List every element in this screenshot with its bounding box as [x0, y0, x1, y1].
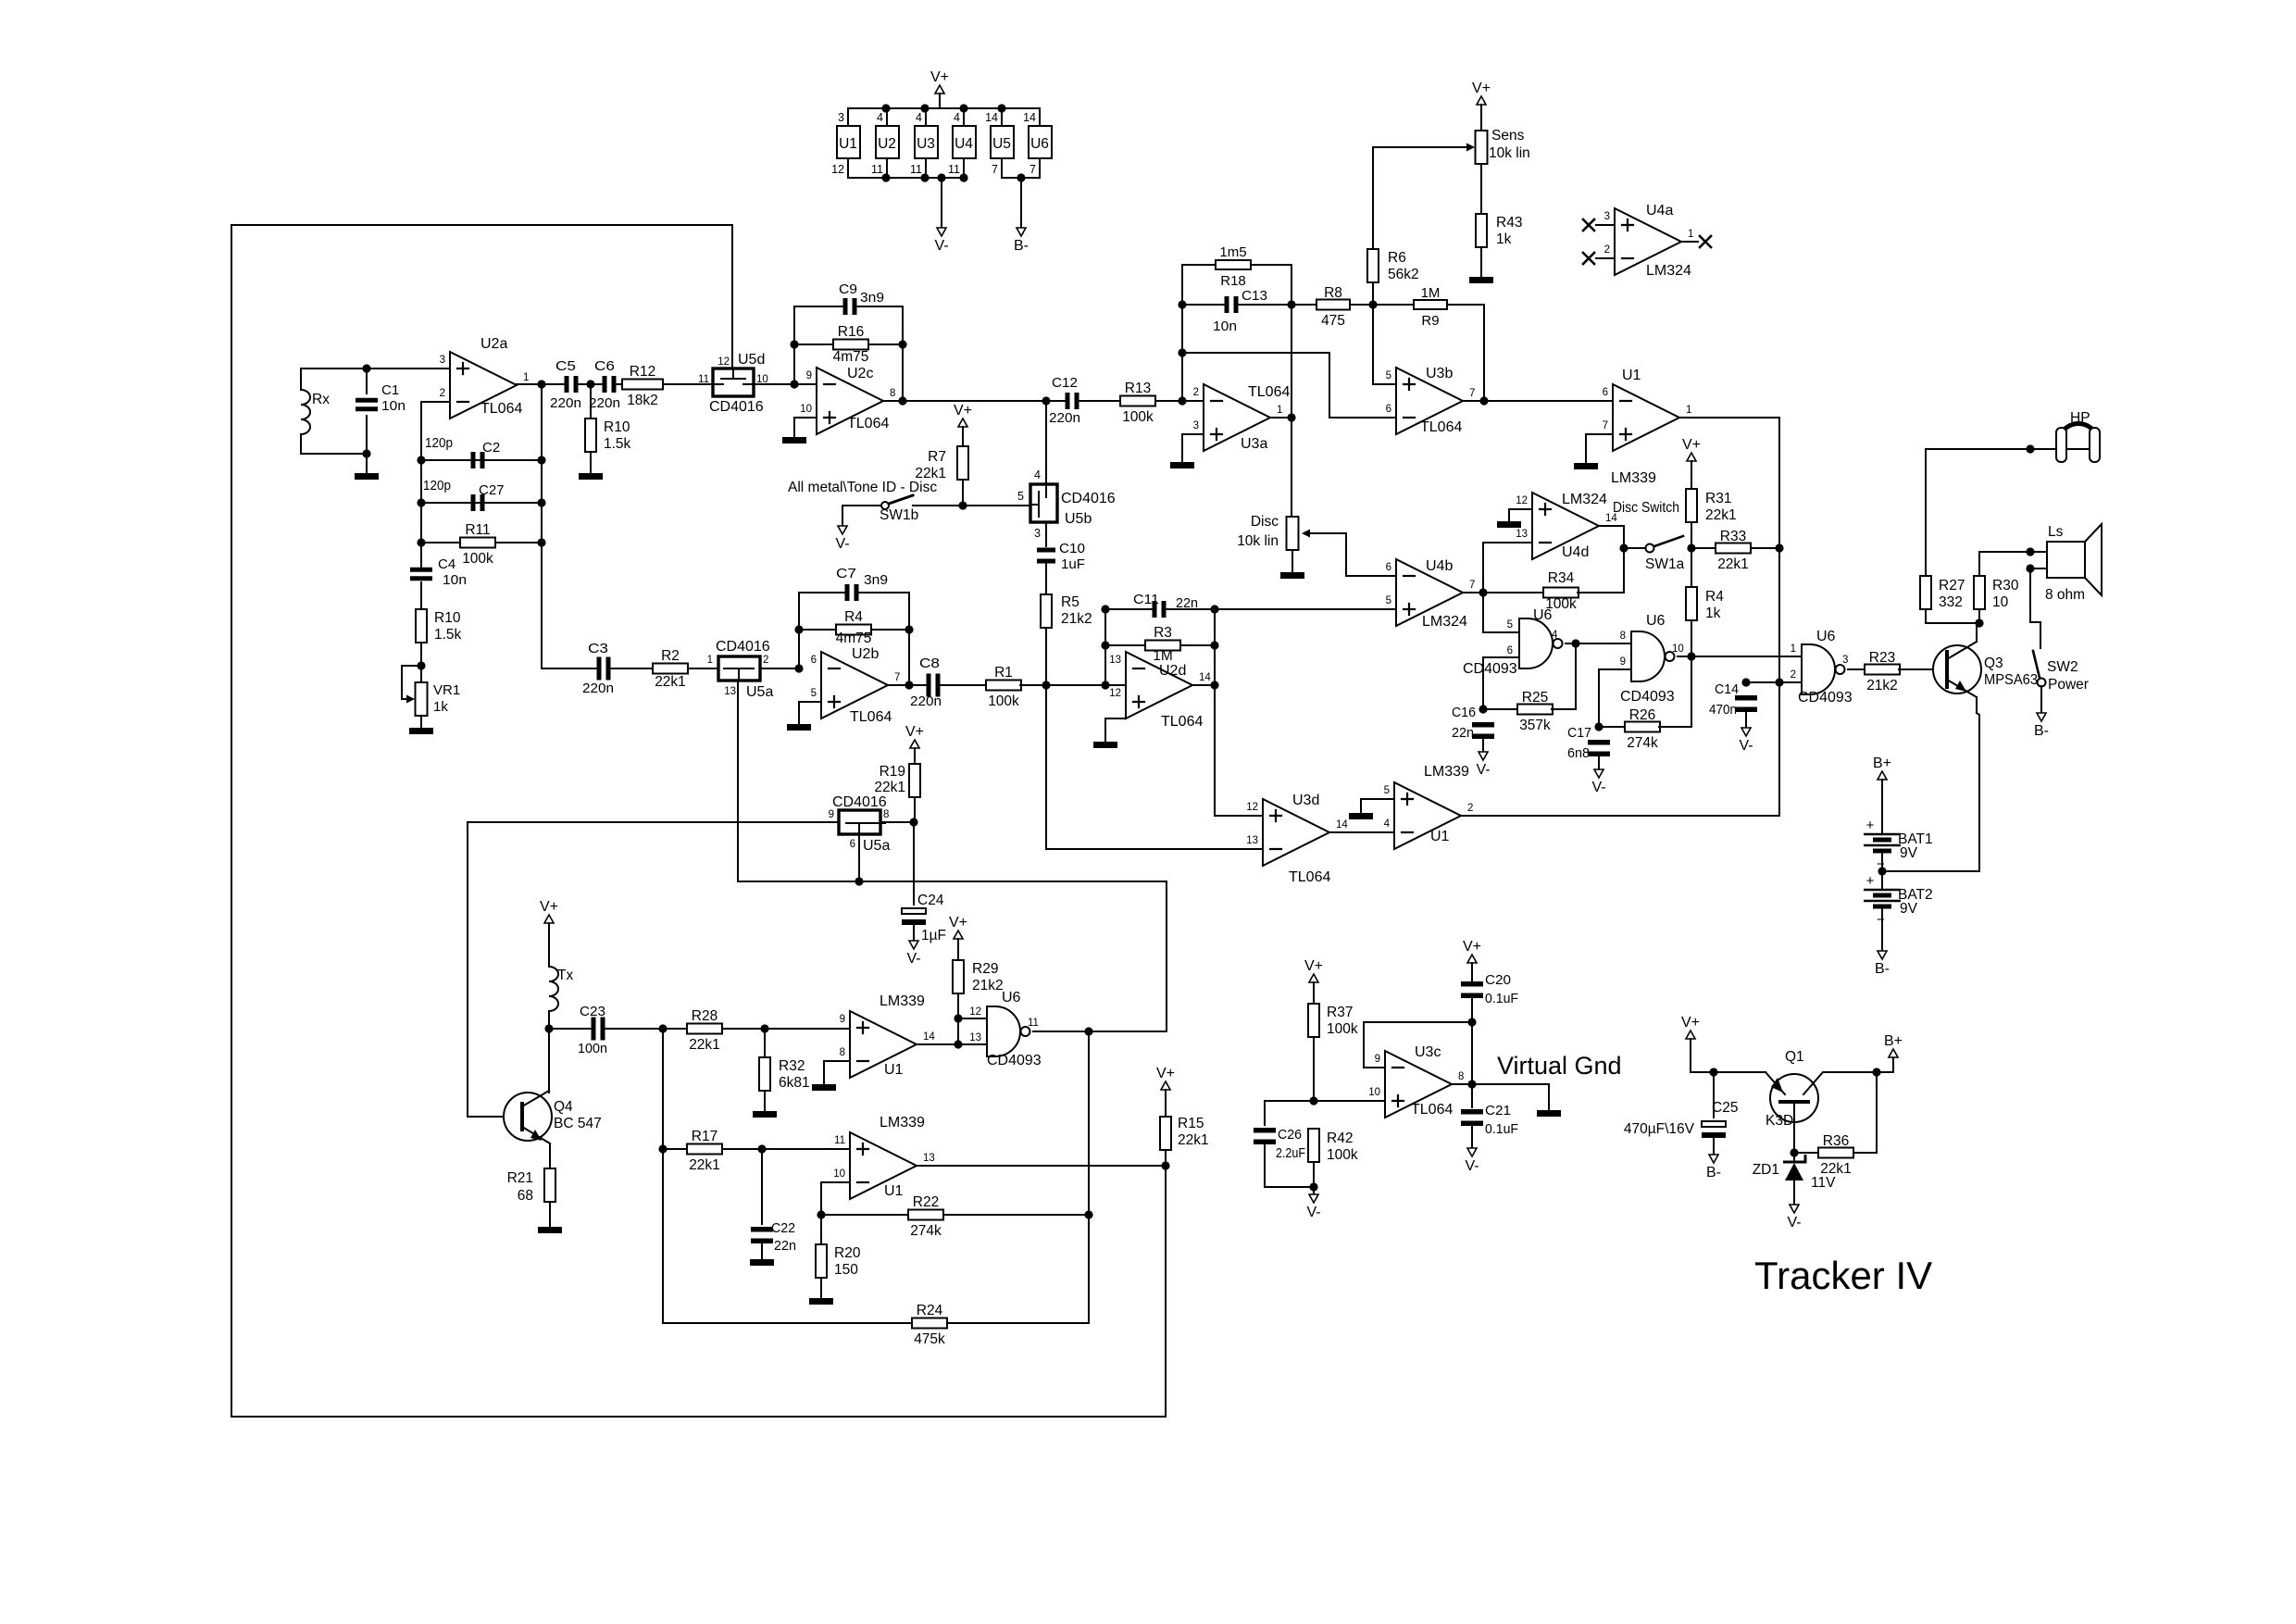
wire U2a out vertical to C3 — [541, 384, 543, 668]
svg-text:R30: R30 — [1992, 578, 2019, 593]
wire C9 right to output — [855, 306, 903, 401]
battery BAT1 — [1864, 818, 1933, 872]
wire to C9 — [794, 306, 844, 307]
resistor R28 — [687, 1008, 722, 1053]
node Rx bottom — [362, 449, 370, 457]
wire U2d pin12 to ground — [1105, 718, 1126, 741]
svg-text:V+: V+ — [1472, 81, 1491, 96]
wire R33 to bus — [1751, 547, 1779, 549]
svg-text:6: 6 — [1507, 645, 1513, 656]
junction U5b pin4 tap — [1042, 396, 1050, 405]
NAND gate U6a CD4093 — [1519, 618, 1563, 668]
svg-text:V+: V+ — [930, 69, 949, 85]
wire BAT1 to BAT2 — [1881, 853, 1883, 888]
svg-text:274k: 274k — [910, 1223, 942, 1239]
svg-text:V-: V- — [906, 951, 920, 967]
svg-text:C27: C27 — [479, 482, 505, 498]
svg-text:R22: R22 — [913, 1194, 939, 1210]
svg-text:9: 9 — [840, 1014, 845, 1025]
op-amp U3d — [1246, 793, 1348, 885]
junction top bus — [959, 104, 967, 112]
V- under SW1b — [835, 526, 849, 552]
wire to R36 — [1794, 1152, 1818, 1154]
wire C20 to output node — [1471, 995, 1473, 1084]
op-amp U3b — [1386, 366, 1476, 435]
svg-text:68: 68 — [518, 1188, 533, 1204]
svg-text:U5a: U5a — [746, 684, 773, 700]
wire R24 to bus — [947, 1215, 1089, 1323]
analog switch U5a CD4016 — [718, 656, 760, 681]
junction U6a out — [1571, 639, 1579, 647]
wire R11 row — [421, 542, 542, 543]
svg-text:3: 3 — [838, 111, 844, 124]
wire R17 to U1d pin11 — [722, 1148, 850, 1150]
svg-text:R43: R43 — [1496, 215, 1522, 231]
svg-text:11V: 11V — [1811, 1175, 1836, 1191]
svg-text:R6: R6 — [1388, 250, 1406, 266]
resistor R37 — [1308, 1004, 1358, 1037]
node U2a out — [537, 380, 545, 388]
svg-text:7: 7 — [894, 672, 900, 683]
wire U6 pin stub — [1039, 158, 1041, 178]
svg-text:2: 2 — [763, 655, 768, 666]
svg-text:11: 11 — [834, 1135, 845, 1146]
wire R21 to ground — [549, 1202, 551, 1226]
junction ZD1 top — [1790, 1148, 1798, 1156]
svg-text:R36: R36 — [1823, 1133, 1849, 1149]
svg-text:U1: U1 — [839, 136, 857, 152]
wire U6c out to R23 — [1848, 668, 1865, 670]
wire U4a pin2 stub — [1596, 257, 1615, 259]
node U2c out — [898, 396, 906, 405]
wire to R33 — [1691, 547, 1716, 549]
junction speaker minus — [2026, 564, 2034, 572]
potentiometer VR1 — [416, 682, 461, 716]
wire U2d node vertical — [1214, 609, 1216, 816]
svg-text:11: 11 — [1028, 1018, 1039, 1029]
svg-text:4m75: 4m75 — [833, 349, 869, 365]
capacitor C21 — [1461, 1109, 1483, 1126]
wire to R32 — [764, 1029, 766, 1057]
svg-text:10n: 10n — [443, 572, 467, 588]
svg-text:8 ohm: 8 ohm — [2045, 587, 2085, 603]
svg-text:LM324: LM324 — [1562, 492, 1607, 507]
svg-text:K3D: K3D — [1766, 1113, 1793, 1129]
wire to R8 — [1291, 304, 1316, 306]
wire R15 to junction — [1165, 1150, 1167, 1166]
wire U5b pin4 vertical — [1045, 401, 1047, 484]
wire top supply bus — [848, 107, 1040, 109]
junction C13 right — [1287, 300, 1295, 308]
svg-text:C14: C14 — [1715, 681, 1739, 697]
svg-text:11: 11 — [698, 374, 709, 385]
svg-text:357k: 357k — [1519, 718, 1551, 733]
wire V+ to Sens — [1480, 105, 1482, 131]
svg-text:475k: 475k — [914, 1331, 945, 1347]
junction R4 left — [794, 625, 803, 633]
wire C2 row — [421, 459, 542, 461]
wire Sens wiper to R6 — [1372, 147, 1374, 249]
wire R9 to U3b out — [1447, 305, 1484, 401]
svg-text:U3c: U3c — [1415, 1044, 1441, 1060]
wire U3a node to U3b pin6 — [1182, 353, 1396, 418]
capacitor C13 — [1225, 296, 1239, 313]
svg-text:R16: R16 — [838, 324, 864, 340]
svg-text:CD4093: CD4093 — [1463, 661, 1517, 677]
svg-text:220n: 220n — [910, 693, 942, 709]
resistor R19 — [909, 764, 920, 797]
None — [301, 390, 310, 434]
wire feedback left to R18 — [1182, 265, 1217, 401]
svg-text:V-: V- — [1591, 780, 1605, 795]
svg-text:U3b: U3b — [1426, 366, 1453, 381]
svg-text:B+: B+ — [1884, 1033, 1903, 1049]
wire Sens to R43 — [1480, 164, 1482, 214]
wire Q4 base — [468, 1116, 504, 1118]
svg-text:C25: C25 — [1712, 1100, 1738, 1116]
op-amp U2c — [800, 368, 895, 434]
svg-text:7: 7 — [1469, 580, 1475, 591]
svg-text:1: 1 — [1688, 229, 1693, 240]
svg-text:8: 8 — [890, 388, 895, 399]
svg-text:R28: R28 — [692, 1008, 717, 1024]
svg-text:9: 9 — [829, 809, 834, 820]
junction R22 right — [1084, 1210, 1092, 1218]
svg-text:10n: 10n — [381, 398, 406, 414]
wire V- drop — [941, 178, 942, 228]
svg-text:V+: V+ — [540, 899, 558, 915]
svg-text:R42: R42 — [1327, 1131, 1353, 1146]
capacitor C10 — [1037, 548, 1055, 564]
junction SW1a right — [1687, 543, 1695, 552]
svg-text:TL064: TL064 — [1161, 714, 1203, 730]
wire C3 to R2 — [610, 668, 654, 669]
svg-text:R4: R4 — [844, 609, 863, 625]
svg-text:11: 11 — [871, 163, 883, 176]
wire C13 left — [1182, 304, 1226, 306]
svg-text:13: 13 — [1109, 655, 1121, 666]
wire ZD1 to V- — [1793, 1181, 1795, 1205]
wire C24 to V- — [913, 922, 915, 941]
svg-text:2: 2 — [1604, 244, 1610, 256]
svg-text:14: 14 — [1023, 111, 1036, 124]
junction R16 right — [898, 340, 906, 348]
wire down to R10 upper — [590, 384, 592, 418]
resistor R30 — [1974, 576, 2019, 610]
IC power block U1 — [837, 126, 860, 158]
wire C10 to R5 — [1045, 564, 1047, 594]
wire R19 to junction — [914, 797, 916, 822]
resistor R4 feedback — [836, 609, 872, 646]
svg-text:C11: C11 — [1133, 592, 1159, 607]
junction R5 bottom — [1042, 681, 1050, 689]
svg-text:18k2: 18k2 — [627, 393, 658, 408]
junction R17 left — [658, 1144, 667, 1153]
svg-text:8: 8 — [1620, 631, 1626, 642]
coil Tx — [549, 967, 573, 1011]
resistor R25 — [1517, 690, 1553, 733]
svg-text:21k2: 21k2 — [1866, 678, 1898, 693]
wire BAT2 to B- — [1881, 908, 1883, 951]
wire U2b pin5 to ground — [799, 702, 821, 723]
resistor R31 — [1686, 489, 1737, 523]
B+ at Q1 — [1884, 1033, 1903, 1057]
svg-text:0.1uF: 0.1uF — [1485, 1121, 1518, 1137]
None — [549, 967, 558, 1011]
wire feedback left U2d — [1104, 609, 1106, 685]
junction C17 top — [1594, 722, 1603, 731]
svg-text:9V: 9V — [1900, 845, 1918, 861]
svg-text:C6: C6 — [594, 358, 615, 374]
svg-text:2: 2 — [1193, 387, 1199, 398]
svg-text:U5d: U5d — [738, 352, 765, 368]
wire V+ to R31 — [1691, 461, 1692, 489]
svg-text:C2: C2 — [482, 440, 500, 456]
svg-text:1uF: 1uF — [1061, 556, 1085, 572]
ground under Disc — [1280, 572, 1304, 579]
wire U1 pin stub — [847, 108, 849, 126]
svg-text:V-: V- — [1465, 1158, 1479, 1174]
svg-text:SW2: SW2 — [2047, 659, 2078, 675]
resistor R11 — [460, 522, 495, 567]
wire Tx to Q4 collector — [548, 1011, 550, 1093]
wire to R20 — [820, 1215, 822, 1244]
wire V+ to Q1 emitter — [1691, 1039, 1766, 1072]
svg-text:R20: R20 — [834, 1245, 861, 1261]
op-amp U3c — [1368, 1044, 1464, 1118]
svg-text:1M: 1M — [1421, 285, 1441, 301]
wire speaker to SW2 — [2030, 568, 2040, 648]
junction U3b pin6 tap — [1178, 348, 1186, 356]
wire C8 to R1 — [940, 684, 987, 686]
wire Rx bottom lead — [300, 434, 302, 454]
svg-text:22k1: 22k1 — [1178, 1132, 1209, 1148]
junction C25 top — [1709, 1068, 1717, 1076]
wire U6a pin6 down — [1483, 657, 1519, 709]
junction R29 bottom — [954, 1040, 962, 1048]
svg-text:TL064: TL064 — [1289, 869, 1330, 885]
junction R32 top — [760, 1024, 768, 1032]
junction C2 right — [537, 456, 545, 464]
resistor R32 — [759, 1057, 810, 1091]
svg-text:TL064: TL064 — [850, 709, 892, 725]
IC power block U4 — [953, 126, 976, 158]
svg-text:CD4016: CD4016 — [716, 639, 770, 655]
capacitor C2 — [471, 452, 485, 468]
svg-text:22n: 22n — [1452, 725, 1474, 741]
svg-text:470µF\16V: 470µF\16V — [1624, 1121, 1695, 1137]
wire to C3 — [542, 668, 599, 669]
op-amp U3a — [1193, 384, 1283, 451]
svg-text:4: 4 — [954, 111, 960, 124]
svg-text:U5b: U5b — [1065, 511, 1092, 527]
svg-text:Tracker IV: Tracker IV — [1754, 1254, 1932, 1297]
svg-text:R7: R7 — [928, 449, 946, 465]
svg-text:6: 6 — [811, 655, 817, 666]
svg-text:120p: 120p — [423, 479, 451, 493]
comparator U1c LM339 — [840, 993, 936, 1078]
resistor R13 — [1120, 381, 1155, 425]
wire to R22 — [821, 1214, 909, 1216]
wire C21 to V- — [1471, 1123, 1473, 1148]
svg-text:TL064: TL064 — [847, 416, 889, 431]
svg-text:Ls: Ls — [2048, 524, 2064, 540]
svg-text:U4b: U4b — [1426, 558, 1453, 574]
svg-text:Q3: Q3 — [1984, 656, 2003, 671]
junction R10 tap — [586, 380, 594, 388]
capacitor C6 — [603, 376, 617, 393]
svg-text:V-: V- — [934, 238, 948, 254]
svg-text:1k: 1k — [1705, 606, 1721, 621]
wire V+ to Tx — [548, 923, 550, 967]
wire R3 row — [1105, 644, 1215, 646]
wire SW1b junction to U5b pin5 — [963, 505, 1030, 506]
wire U2a pin2 — [421, 401, 450, 403]
junction C20 bottom — [1467, 1018, 1476, 1026]
wire pins12-13 tie — [958, 1018, 987, 1044]
analog switch U5b CD4016 — [1030, 484, 1057, 522]
svg-text:B-: B- — [1706, 1165, 1721, 1181]
op-amp U2a — [440, 336, 530, 418]
svg-text:U3d: U3d — [1292, 793, 1319, 808]
junction top bus — [997, 104, 1005, 112]
resistor R16 — [833, 324, 869, 365]
ground under U1a — [1574, 463, 1598, 469]
wiper arrow Sens — [1466, 144, 1475, 152]
svg-text:B-: B- — [1014, 238, 1029, 254]
wiper arrow VR1 — [406, 695, 415, 704]
wire C13 right — [1238, 304, 1291, 306]
svg-text:14: 14 — [1199, 672, 1211, 683]
junction C27 right — [537, 498, 545, 506]
svg-text:R32: R32 — [779, 1058, 805, 1074]
resistor R10 upper — [585, 418, 631, 452]
wire R26 right — [1659, 726, 1691, 728]
svg-text:C12: C12 — [1052, 375, 1078, 391]
svg-text:11: 11 — [910, 163, 922, 176]
svg-text:8: 8 — [883, 809, 889, 820]
resistor R4 1k — [1686, 587, 1724, 621]
svg-text:22k1: 22k1 — [1705, 507, 1737, 523]
battery BAT2 — [1864, 873, 1933, 928]
wire midpoint to Q3 emitter — [1882, 870, 1979, 872]
svg-text:R12: R12 — [630, 364, 655, 380]
svg-text:V+: V+ — [949, 915, 967, 931]
wire U5c pin8 out — [880, 821, 914, 823]
svg-text:U4d: U4d — [1562, 544, 1589, 560]
svg-text:U2b: U2b — [852, 646, 879, 662]
svg-text:274k: 274k — [1627, 735, 1658, 751]
svg-text:TL064: TL064 — [1411, 1102, 1453, 1118]
wire R31 to SW1a junction — [1691, 522, 1692, 548]
svg-text:U6: U6 — [1533, 607, 1553, 623]
svg-text:R24: R24 — [917, 1303, 943, 1318]
svg-text:10: 10 — [1672, 643, 1684, 655]
resistor R6 — [1367, 249, 1419, 282]
wire U6b pin9 down — [1599, 669, 1631, 727]
wire R25 to U6a out — [1552, 643, 1576, 709]
wire U4b out to R34 — [1483, 592, 1544, 593]
zener diode ZD1 — [1753, 1155, 1836, 1191]
svg-text:U2a: U2a — [480, 336, 507, 352]
svg-text:12: 12 — [831, 163, 844, 176]
svg-text:TL064: TL064 — [1248, 384, 1290, 400]
svg-text:150: 150 — [834, 1262, 858, 1278]
node U4b out — [1479, 588, 1487, 596]
svg-text:CD4093: CD4093 — [987, 1053, 1042, 1068]
svg-text:100n: 100n — [578, 1041, 607, 1056]
svg-text:22k1: 22k1 — [689, 1037, 720, 1053]
wire C11 right stub — [1166, 608, 1215, 610]
svg-text:1µF: 1µF — [921, 928, 946, 943]
op-amp U4b — [1386, 558, 1476, 630]
capacitor C11 — [1153, 601, 1167, 618]
svg-text:C7: C7 — [836, 566, 856, 581]
svg-text:V-: V- — [835, 536, 849, 552]
svg-text:CD4016: CD4016 — [832, 794, 887, 810]
resistor R21 — [544, 1168, 555, 1202]
svg-text:R18: R18 — [1220, 273, 1246, 289]
B- under BAT2 — [1875, 951, 1890, 977]
capacitor C16 — [1472, 722, 1494, 739]
junction R24 bus top — [1084, 1027, 1092, 1035]
svg-text:1k: 1k — [433, 699, 448, 715]
capacitor C22 — [751, 1227, 773, 1243]
svg-text:3: 3 — [1034, 527, 1041, 540]
svg-text:6: 6 — [850, 839, 855, 850]
svg-text:Q4: Q4 — [554, 1099, 573, 1115]
junction bottom bus — [920, 173, 929, 181]
resistor R43 — [1476, 214, 1522, 247]
svg-text:3: 3 — [1604, 211, 1610, 222]
svg-text:C10: C10 — [1059, 541, 1085, 556]
svg-text:10k lin: 10k lin — [1489, 145, 1530, 161]
wire U3a output stub — [1270, 417, 1291, 418]
wire C27 row — [421, 502, 542, 504]
svg-text:4: 4 — [916, 111, 922, 124]
wire V+ to R19 — [914, 748, 916, 764]
junction pin6 line — [855, 877, 863, 885]
svg-text:LM324: LM324 — [1422, 614, 1467, 630]
wire U4b out — [1463, 592, 1483, 593]
svg-text:9V: 9V — [1900, 901, 1918, 917]
wire feedback left vertical U2c — [793, 306, 795, 384]
junction U2d inverting — [1101, 681, 1109, 689]
wiper arrow Disc — [1302, 530, 1310, 538]
svg-text:1.5k: 1.5k — [434, 627, 462, 643]
svg-text:1k: 1k — [1496, 231, 1512, 247]
ground under U1c — [812, 1084, 836, 1091]
wire U1a out to bus — [1679, 418, 1779, 816]
V- under C21 — [1465, 1148, 1479, 1174]
junction VR1 wiper tap — [417, 661, 425, 669]
junction C13 left — [1178, 300, 1186, 308]
wire Disc wiper horizontal — [1305, 532, 1346, 534]
svg-text:C16: C16 — [1452, 705, 1476, 720]
ground under R21 — [538, 1227, 562, 1233]
wire U3b out to U1 pin6 — [1463, 400, 1613, 402]
ground under R32 — [753, 1111, 777, 1118]
wire R28 to U1c pin9 — [722, 1028, 850, 1030]
junction U2b inverting — [794, 664, 803, 672]
wire junction to U3b pin5 — [1373, 305, 1396, 384]
svg-text:R10: R10 — [604, 419, 630, 435]
capacitor C5 — [565, 376, 579, 393]
junction Q1 collector — [1872, 1068, 1880, 1076]
junction R11 left — [417, 538, 425, 546]
svg-text:R3: R3 — [1154, 625, 1172, 641]
wire C1 top — [366, 369, 368, 394]
